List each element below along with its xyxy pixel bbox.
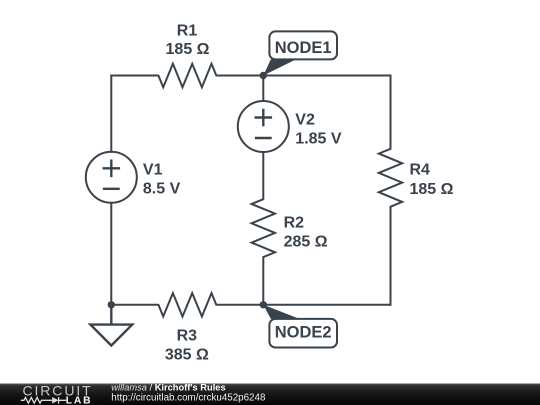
label R1 value: [165, 22, 210, 363]
node C: junction dot NODE2: [260, 301, 267, 308]
svg-text:V2: V2: [295, 111, 315, 128]
svg-text:185 Ω: 185 Ω: [410, 181, 454, 198]
V1 minus sign: [103, 188, 120, 190]
svg-text:R3: R3: [177, 328, 198, 345]
node NODE2 callout tail: [263, 305, 299, 319]
node NODE2 label box: [269, 319, 337, 348]
svg-text:285 Ω: 285 Ω: [284, 234, 328, 251]
resistor R1: [111, 64, 390, 87]
CircuitLab logo resistor squiggle and diode: [21, 397, 67, 404]
V2 minus sign: [255, 137, 272, 139]
resistor R4: [379, 76, 402, 305]
svg-text:R2: R2: [284, 214, 305, 231]
ground: [90, 305, 132, 346]
node NODE1 label box: [269, 31, 337, 59]
svg-text:V1: V1: [143, 161, 163, 178]
node A: junction dot NODE1: [260, 72, 267, 79]
svg-text:385 Ω: 385 Ω: [165, 347, 209, 364]
svg-text:185 Ω: 185 Ω: [166, 41, 210, 58]
V1 plus sign: [103, 160, 121, 178]
svg-text:8.5 V: 8.5 V: [143, 181, 181, 198]
svg-text:LAB: LAB: [66, 395, 93, 405]
wire: middle column top (to V2): [262, 76, 264, 102]
node NODE1 callout tail: [263, 59, 296, 75]
voltage source V1: [86, 152, 137, 203]
footer bar: [0, 384, 540, 405]
svg-text:http://circuitlab.com/crcku452: http://circuitlab.com/crcku452p6248: [111, 392, 266, 403]
wire: left column (V1 branch): [110, 76, 112, 305]
svg-text:NODE2: NODE2: [275, 323, 332, 341]
resistor R3: [111, 293, 390, 316]
voltage source V2: [238, 101, 289, 152]
svg-text:willamsa / Kirchoff's Rules: willamsa / Kirchoff's Rules: [111, 383, 225, 393]
svg-text:R4: R4: [410, 161, 431, 178]
wire: top rail left segment with resistor R1 body: [86, 64, 402, 317]
node B: junction dot ground: [108, 301, 115, 308]
svg-text:NODE1: NODE1: [275, 39, 332, 57]
svg-text:1.85 V: 1.85 V: [295, 131, 342, 148]
svg-text:R1: R1: [177, 22, 198, 39]
V2 plus sign: [255, 109, 273, 127]
resistor R2: [252, 152, 275, 305]
